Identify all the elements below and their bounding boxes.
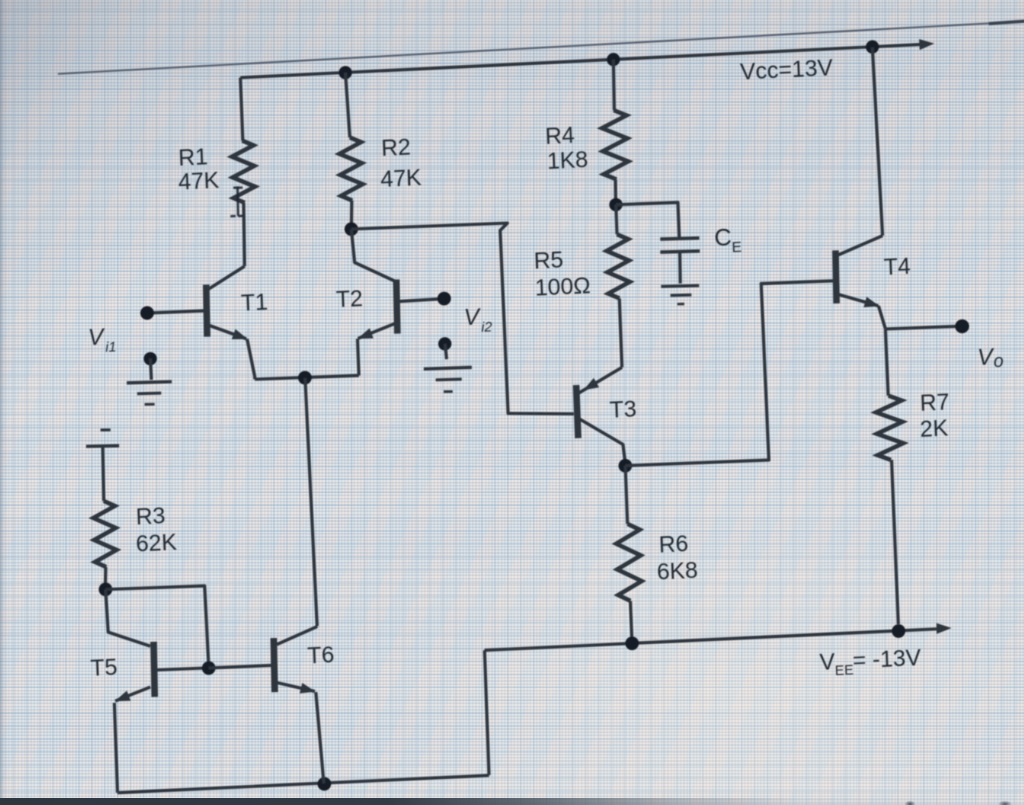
svg-text:EE: EE [835,661,854,678]
svg-text:62K: 62K [135,529,178,557]
wire R3 to node [105,567,107,585]
resistor R7 [875,395,903,461]
wire R6 to VEE [630,601,632,643]
wire R4 to node E [615,179,616,199]
svg-text:Vcc=13V: Vcc=13V [740,54,834,84]
svg-text:i2: i2 [481,318,493,335]
wire R2 to node B [351,201,353,224]
svg-text:T2: T2 [335,285,363,312]
transistor T1 [205,285,208,337]
wire T5 emitter down [114,703,118,793]
node T3 collector junction [618,459,632,473]
wire VEE step [484,650,489,775]
wire VCC to R2 [345,72,349,137]
node bottom junction [317,777,331,791]
svg-text:T4: T4 [883,253,911,280]
wire T4 emitter to Vo [885,325,959,329]
wire node B to T3 base [351,219,573,424]
wire T4 emitter down [879,306,886,329]
wire R1 to T1 collector [242,203,246,267]
wire node E to R5 [616,205,617,235]
resistor R3 [93,500,118,567]
svg-text:47K: 47K [380,164,423,192]
ground above R3 [100,428,110,432]
svg-text:R5: R5 [533,247,563,274]
resistor R5 [606,234,630,299]
svg-text:T5: T5 [90,654,118,681]
svg-text:V: V [87,324,106,351]
svg-text:R4: R4 [545,122,576,149]
wire T2 emitter to tail [357,339,358,376]
wire T3 emitter to T4 base [619,280,841,467]
wire T4 collector to VCC [872,47,882,236]
node Vi2 terminal [437,291,451,305]
svg-text:100Ω: 100Ω [534,272,591,301]
wire T5 base [154,667,209,670]
wire VCC to R1 [240,78,242,141]
node base junction [202,661,216,675]
svg-text:47K: 47K [178,167,221,195]
resistor R1 [231,140,255,203]
transistor T3 [576,385,578,438]
wire T6 emitter down [316,692,324,784]
ground CE [661,285,699,288]
resistor R6 [616,523,643,601]
node E junction [609,198,623,212]
capacitor CE [660,237,699,240]
node VCC rail [240,44,922,77]
node Vo terminal [955,319,970,334]
node VEE junction R6 [625,636,639,650]
wire T2 base [397,299,444,302]
transistor T6 [273,638,276,692]
svg-text:6K8: 6K8 [656,557,698,585]
svg-text:2K: 2K [919,414,949,441]
wire R7 to VEE [892,460,899,624]
svg-text:E: E [731,239,742,256]
cursor artifact [237,186,239,216]
node tail junction [298,371,312,385]
svg-text:C: C [714,224,732,252]
ground Vi1 [143,352,157,366]
svg-text:T6: T6 [307,641,335,668]
svg-text:= -13V: = -13V [852,644,922,673]
wire Vo node to R7 [885,329,888,396]
transistor T5 [153,642,156,697]
node Vi1 terminal [140,306,154,320]
wire page border line [58,21,1024,73]
svg-text:i1: i1 [105,338,117,355]
svg-text:T3: T3 [609,395,637,422]
transistor T2 [395,280,398,334]
ground Vi2 [438,337,452,351]
node B junction [344,222,358,236]
svg-text:R3: R3 [135,502,165,529]
wire T3 to R6 [625,466,627,524]
node VCC junction T4 [866,40,880,54]
wire T1 emitter to tail [247,339,255,380]
svg-text:R2: R2 [381,134,411,161]
wire bottom return [117,775,489,793]
svg-text:V: V [463,304,482,331]
node VCC junction R4 [607,53,621,67]
wire T1 base [147,310,207,313]
resistor R2 [339,137,363,201]
wire tail to T6 collector [305,378,317,626]
node VEE junction R7 [892,624,906,638]
wire R5 to T3 emitter [619,298,622,367]
svg-text:V: V [819,648,836,675]
wire emitter tail [255,374,359,380]
wire T6 base [209,665,275,669]
node VCC junction R2 [339,66,353,80]
svg-text:o: o [993,351,1004,371]
wire node E to CE [616,202,679,242]
svg-text:1K8: 1K8 [547,146,589,174]
svg-text:T1: T1 [240,289,268,316]
svg-text:R7: R7 [919,388,949,415]
node VEE rail [485,628,940,650]
transistor T4 [835,250,838,303]
wire R3 node to bases [106,585,209,668]
wire VCC to R4 [612,60,615,111]
resistor R4 [601,110,629,180]
svg-text:R6: R6 [658,530,688,557]
node R3 junction [98,582,112,596]
